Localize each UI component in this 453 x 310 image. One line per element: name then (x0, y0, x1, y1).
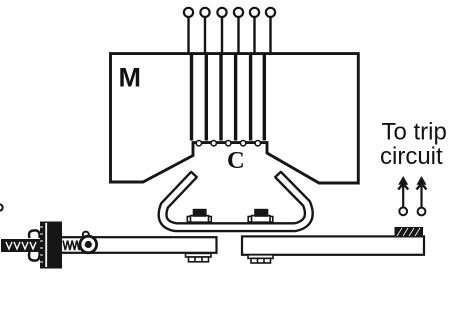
lower clamp bolt under left bar (186, 253, 212, 261)
label M (119, 63, 142, 93)
adjusting screw threaded rod (left end, black with thread crests) (1, 239, 41, 252)
trip arrow left (398, 176, 408, 215)
right contact bar (242, 236, 424, 254)
wire 5 (249, 53, 252, 141)
label: To trip circuit (380, 119, 447, 171)
svg-text:C: C (227, 147, 245, 174)
wire 2 (205, 53, 208, 141)
lower clamp bolt under right bar (248, 255, 273, 263)
armature leaf-spring strip (bent triangle) (163, 171, 309, 227)
svg-text:To trip: To trip (382, 119, 447, 146)
svg-text:circuit: circuit (380, 143, 443, 170)
coil turn bumps at bottom of winding (196, 141, 260, 146)
coil winding wires (vertical bundle) (192, 53, 265, 141)
knurled adjusting knob (black) (40, 222, 62, 269)
wing lock-nut on rod (29, 230, 40, 260)
thread section between knob and pivot (63, 241, 81, 251)
pivot nub (83, 232, 89, 238)
pivot circle on left bar (80, 236, 97, 253)
left contact bar (armature lever) (60, 237, 217, 253)
trip arrow right (417, 176, 427, 215)
wire 1 (190, 53, 193, 141)
label C (coil) (227, 147, 245, 174)
contact pad (hatched) on right bar (395, 227, 424, 237)
upper contact bolt (right) on strip (248, 210, 273, 223)
wire 6 (263, 53, 266, 141)
terminal stems (189, 17, 271, 55)
page-edge speck (0, 204, 3, 210)
svg-text:M: M (119, 63, 142, 93)
magnet core M outline (111, 54, 359, 183)
wire 3 (219, 53, 222, 141)
terminal circles (184, 8, 275, 17)
wire 4 (234, 53, 237, 141)
upper contact bolt (left) on strip (187, 210, 211, 223)
